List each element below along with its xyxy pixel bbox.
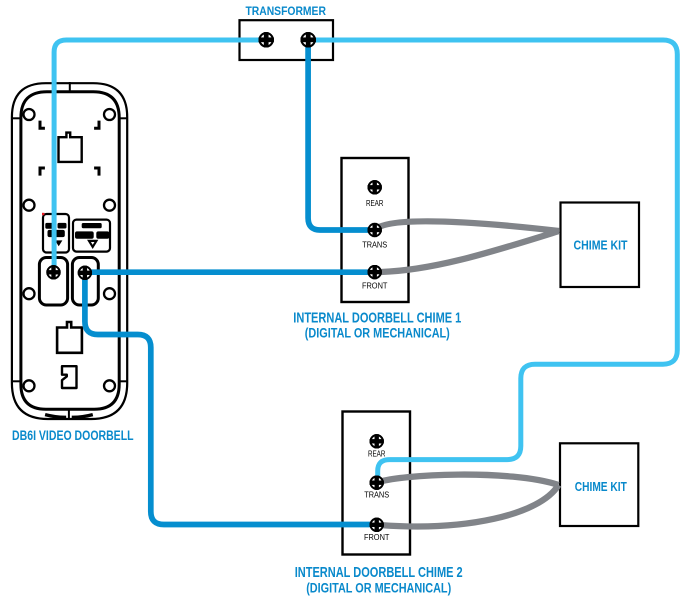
doorbell inner faceplate <box>21 92 119 410</box>
bottom speaker arc right <box>72 415 93 418</box>
top cutout square with notch <box>59 133 82 162</box>
gray wire chime1 TRANS to chime kit 1 <box>375 221 559 231</box>
svg-text:REAR: REAR <box>366 199 384 208</box>
screw hole bottom-left <box>24 380 35 391</box>
terminal box left <box>39 258 67 306</box>
label box left row2 blobs <box>48 230 65 237</box>
chime2 FRONT screw <box>370 518 384 532</box>
gray wire chime1 FRONT to chime kit 1 <box>375 231 559 272</box>
label box left <box>43 214 69 253</box>
screw hole mid1-right <box>104 200 115 211</box>
svg-text:(DIGITAL OR MECHANICAL): (DIGITAL OR MECHANICAL) <box>305 325 450 341</box>
bracket mark top-left <box>40 121 45 129</box>
blue wire: doorbell right terminal to chime1 FRONT <box>85 269 375 275</box>
svg-text:INTERNAL DOORBELL CHIME 1: INTERNAL DOORBELL CHIME 1 <box>293 310 461 326</box>
screw hole mid1-left <box>24 200 35 211</box>
label box left triangle <box>55 240 62 246</box>
bottom speaker arc left <box>45 415 66 418</box>
screw hole mid2-left <box>24 288 35 299</box>
cyan wire: transformer right screw to chime2 TRANS (right side run) <box>308 40 677 481</box>
chime1 TRANS screw <box>368 223 382 237</box>
right upper side seam <box>119 117 129 119</box>
svg-text:CHIME KIT: CHIME KIT <box>575 480 627 494</box>
doorbell terminal screw right <box>78 266 92 280</box>
label box right row2 blobs <box>75 231 94 238</box>
bottom cutout square with notch <box>57 322 82 353</box>
svg-text:TRANS: TRANS <box>362 240 387 249</box>
label box right <box>73 220 110 252</box>
bottom seam tick <box>68 409 70 419</box>
chime1 REAR screw <box>368 180 382 194</box>
svg-text:CHIME KIT: CHIME KIT <box>574 239 628 253</box>
svg-text:REAR: REAR <box>368 449 386 458</box>
left lower side seam <box>11 380 22 382</box>
svg-text:FRONT: FRONT <box>364 533 390 542</box>
red dot <box>42 213 44 215</box>
bracket mark low-left <box>40 168 45 176</box>
svg-text:FRONT: FRONT <box>362 282 388 291</box>
screw hole bottom-right <box>104 380 115 391</box>
gray wire chime2 FRONT to chime kit 2 <box>377 485 559 526</box>
screw hole top-right <box>104 109 115 120</box>
label box right row1 blob <box>82 223 102 228</box>
svg-text:INTERNAL DOORBELL CHIME 2: INTERNAL DOORBELL CHIME 2 <box>295 565 463 581</box>
svg-text:(DIGITAL OR MECHANICAL): (DIGITAL OR MECHANICAL) <box>306 580 451 596</box>
svg-text:DB6I VIDEO DOORBELL: DB6I VIDEO DOORBELL <box>12 428 134 443</box>
bracket mark top-right <box>94 121 99 129</box>
blue wire: doorbell right terminal down/around to chime2 FRONT <box>85 273 377 525</box>
doorbell outer shell <box>12 83 127 419</box>
chime2 REAR screw <box>370 434 384 448</box>
cyan wire: doorbell left terminal up to transformer left screw <box>54 40 266 272</box>
left upper side seam <box>11 117 22 119</box>
blue wire: transformer right screw down to chime1 TRANS <box>308 40 375 230</box>
bracket mark low-right <box>94 168 99 176</box>
chime2 TRANS screw <box>370 476 384 490</box>
transformer screw right <box>301 32 316 47</box>
chime1 FRONT screw <box>368 265 382 279</box>
right lower side seam <box>119 380 129 382</box>
transformer screw left <box>259 32 274 47</box>
doorbell terminal screw left <box>46 265 60 279</box>
screw hole mid2-right <box>104 288 115 299</box>
label box right triangle outline <box>89 241 96 247</box>
svg-text:TRANS: TRANS <box>364 491 389 500</box>
microSD icon <box>62 366 77 388</box>
screw hole top-left <box>24 109 35 120</box>
gray wire chime2 TRANS to chime kit 2 <box>377 475 559 485</box>
terminal box right <box>72 258 98 306</box>
top seam tick <box>69 82 71 91</box>
label box left row1 blobs <box>45 223 55 229</box>
svg-text:TRANSFORMER: TRANSFORMER <box>245 4 326 18</box>
